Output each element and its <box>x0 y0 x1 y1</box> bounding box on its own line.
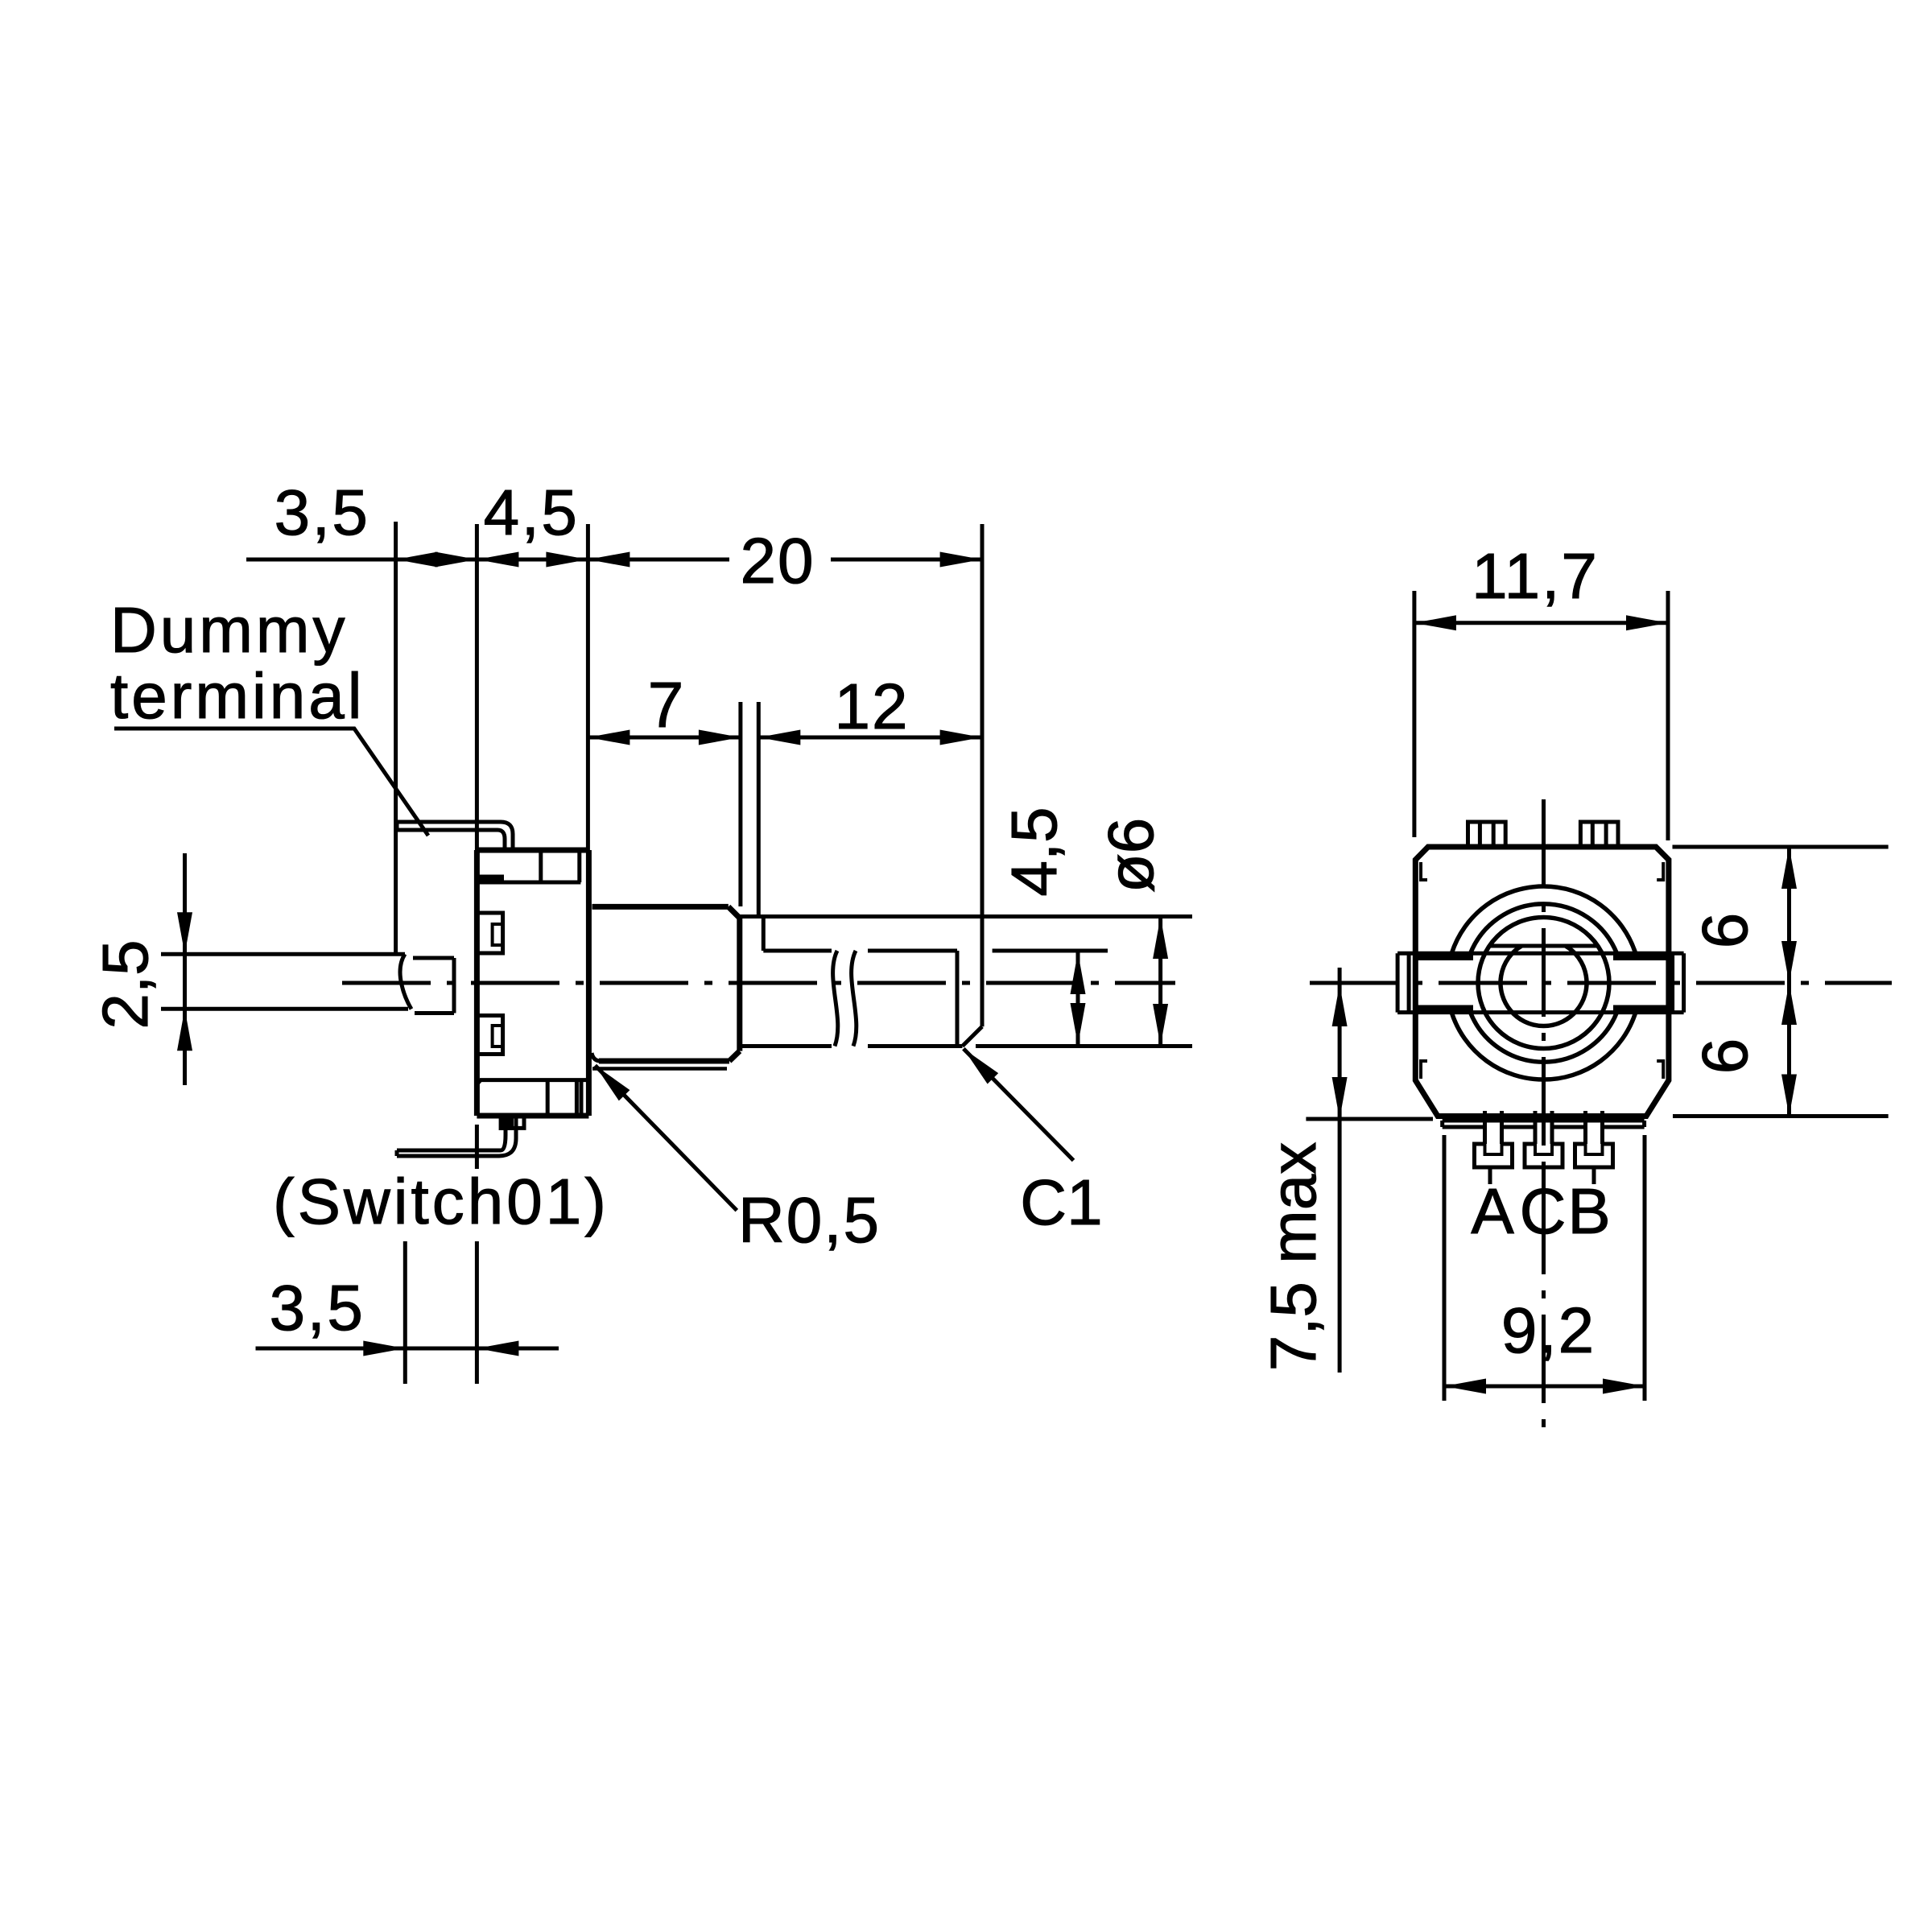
svg-text:ø6: ø6 <box>1095 818 1166 893</box>
leader line for Dummy terminal <box>114 729 428 836</box>
svg-text:6: 6 <box>1689 913 1761 949</box>
svg-text:A: A <box>1471 1175 1514 1247</box>
svg-text:(Switch01): (Switch01) <box>273 1166 609 1237</box>
corner relief marks <box>1421 862 1427 880</box>
centerlines of right view <box>1310 981 1892 985</box>
bottom strip of body <box>480 1078 588 1082</box>
dimension 7: dim line y=916 <box>588 736 741 740</box>
dimension 9,2 <box>1443 1135 1447 1401</box>
thickened band segments near body edges <box>1415 956 1669 1009</box>
black nub bottom (switch terminal root) <box>499 1116 514 1130</box>
body right face <box>586 850 592 1116</box>
svg-text:12: 12 <box>835 671 910 742</box>
svg-text:4,5: 4,5 <box>998 807 1070 896</box>
outer arc r=120 <box>1451 886 1635 953</box>
pin B (right) <box>1575 1111 1613 1184</box>
white notch outline at bottom nub <box>514 1116 524 1128</box>
body left face <box>474 850 480 1116</box>
svg-text:R0,5: R0,5 <box>738 1184 881 1256</box>
dimension 12: dim line y=916 <box>758 736 981 740</box>
dummy terminal (top bent sheet) <box>397 822 513 850</box>
pin A (left) <box>1475 1111 1513 1184</box>
svg-text:6: 6 <box>1689 1038 1761 1075</box>
body top edge <box>477 848 588 853</box>
shaft flat end face <box>956 951 960 1046</box>
plunger (rear shaft) with break: top/bottom edges, also 2,5 extension lines <box>161 952 405 956</box>
dimension 3,5 top: dim line tail and shared top dimension line y=695 <box>246 558 982 562</box>
top strip of body <box>477 881 580 885</box>
dimension 11,7 <box>1412 591 1416 837</box>
extensions for bottom 3,5 <box>403 1241 407 1384</box>
svg-text:3,5: 3,5 <box>275 477 370 548</box>
extension line x=730.4 (4,5 / 20 boundary) <box>586 524 590 850</box>
extension line x=491.6 (3,5 left / bracket face) <box>394 522 398 954</box>
svg-text:7: 7 <box>648 669 684 741</box>
extension line x=1220 (20/12 right, shaft end) <box>980 524 985 1026</box>
plunger nose right of break <box>413 956 454 960</box>
svg-text:C: C <box>1520 1175 1567 1247</box>
bracket tab upper <box>477 913 502 953</box>
svg-text:terminal: terminal <box>110 660 365 732</box>
shaft hole circle r=53.5 <box>1501 946 1587 1026</box>
arrows of dims 3,5 / 4,5 / 20 <box>396 552 982 568</box>
break S-curve on plunger <box>400 954 411 1009</box>
svg-text:2,5: 2,5 <box>89 939 161 1029</box>
left view: encoder body outline <box>477 850 588 1116</box>
extension x=919.9 (7 right) <box>738 702 742 906</box>
pin C (center) <box>1525 1111 1563 1196</box>
svg-text:Dummy: Dummy <box>110 594 349 666</box>
dimension 6 upper / 6 lower (right side) <box>1673 845 1889 849</box>
svg-text:C1: C1 <box>1020 1166 1102 1238</box>
side tab band <box>1397 952 1684 956</box>
svg-text:3,5: 3,5 <box>270 1272 365 1344</box>
svg-text:4,5: 4,5 <box>484 477 580 548</box>
second arc r=98 <box>1471 904 1617 953</box>
bushing face circle r=81.5 <box>1478 918 1609 1049</box>
svg-text:11,7: 11,7 <box>1472 540 1599 612</box>
top mounting tab left <box>1468 822 1506 847</box>
bushing (threaded boss) <box>592 904 729 910</box>
svg-text:9,2: 9,2 <box>1501 1294 1596 1366</box>
right view body square with chamfers <box>1415 847 1669 1117</box>
svg-text:20: 20 <box>741 525 815 597</box>
terminal flange below body <box>1443 1119 1645 1123</box>
extension line x=592.4 (3,5 / 4,5 boundary) <box>475 524 479 850</box>
dimension 2,5 (left, vertical) <box>183 853 187 1085</box>
centerline (left view) <box>342 981 1175 985</box>
black nub top (dummy terminal root) <box>477 875 504 883</box>
dimension 3,5 bottom <box>256 1347 559 1351</box>
body bottom edge <box>477 1113 588 1119</box>
svg-text:7,5 max: 7,5 max <box>1257 1142 1329 1372</box>
extension x=942.3 (12 left) <box>757 702 761 918</box>
shaft break S-curves <box>833 951 838 1046</box>
top mounting tab right <box>1580 822 1618 847</box>
shaft tip chamfer C1 <box>963 1026 983 1046</box>
R0.5 fillet at bushing root <box>592 1053 601 1061</box>
svg-text:B: B <box>1567 1175 1610 1247</box>
dimension ø6 (shaft dia, rotated) <box>1158 917 1162 1046</box>
shaft flat chord <box>1491 944 1596 948</box>
shaft: outer diameter lines and flat <box>740 914 1192 919</box>
dimension 7,5 max (left of right view) <box>1338 968 1342 1373</box>
switch terminal (bottom bent sheet) <box>397 1117 516 1156</box>
bracket tab lower <box>477 1016 502 1055</box>
dimension 4,5 (shaft flat, rotated) <box>1076 952 1080 1045</box>
